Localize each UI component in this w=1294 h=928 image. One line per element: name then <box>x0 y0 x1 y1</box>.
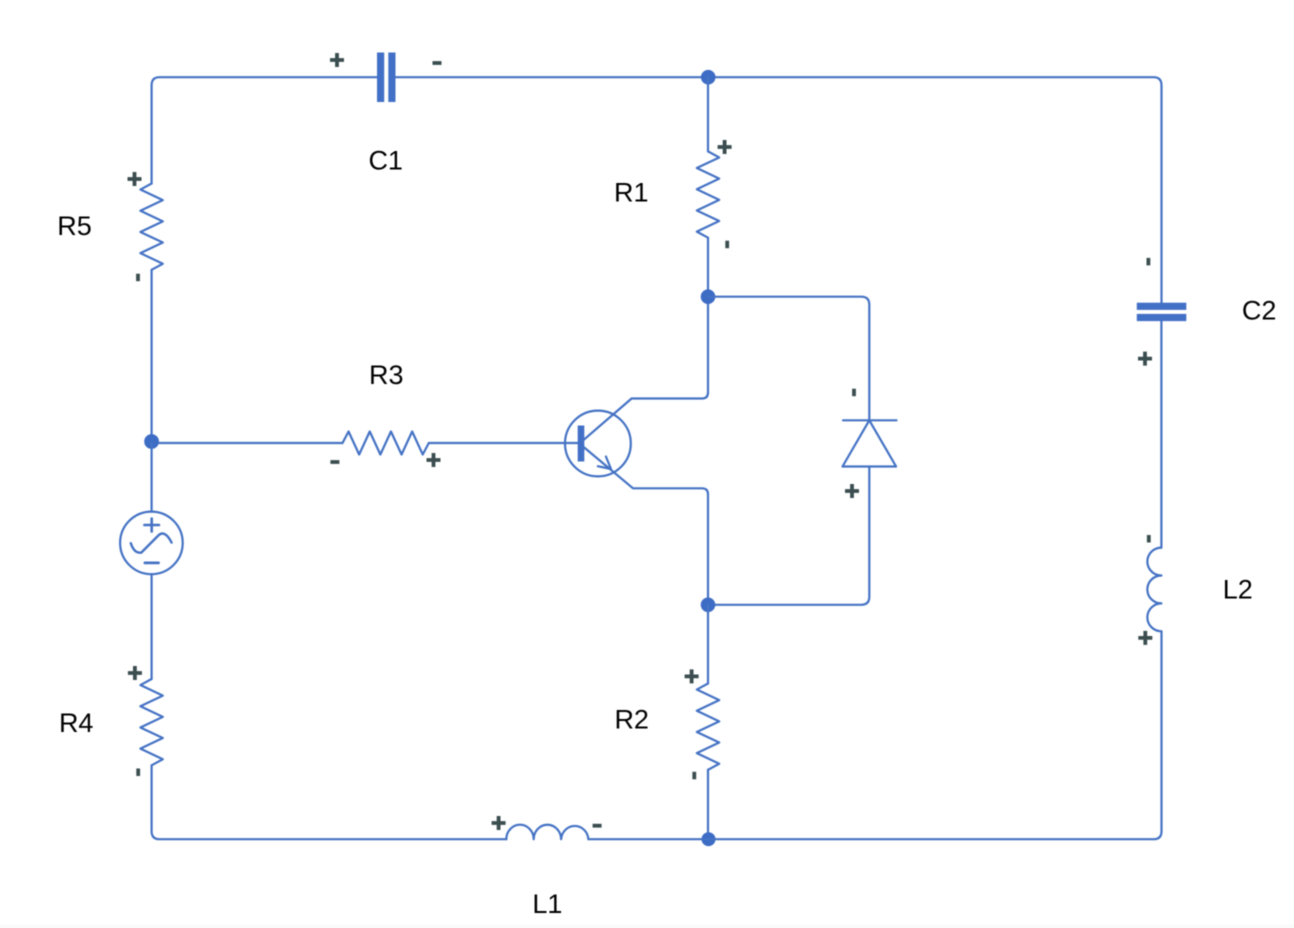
svg-text:R1: R1 <box>614 178 649 208</box>
wire R1 to node C <box>707 238 709 297</box>
source V1 circle <box>120 512 183 575</box>
C2 plus <box>1138 352 1152 366</box>
svg-text:C2: C2 <box>1242 296 1277 326</box>
R3 minus <box>330 460 339 464</box>
C1 minus <box>433 61 442 65</box>
svg-text:R3: R3 <box>369 360 404 390</box>
wire R2 to node E <box>707 770 709 839</box>
wire node B to source <box>151 443 153 512</box>
wire node B to R3 <box>159 442 343 444</box>
diode D1 minus <box>852 389 856 397</box>
svg-text:L1: L1 <box>532 889 562 919</box>
wire bottom-left corner <box>152 765 507 839</box>
R2 minus <box>692 772 696 780</box>
node C (collector junction) <box>701 289 716 304</box>
source V1 minus <box>145 562 159 565</box>
transistor Q1 collector wire <box>583 297 708 441</box>
node E (bottom junction) <box>702 832 716 846</box>
wire node A to R1 <box>707 77 709 151</box>
transistor Q1 emitter wire <box>583 447 708 605</box>
R5 minus <box>136 274 140 282</box>
capacitor C2 <box>1137 303 1187 321</box>
wire R3 to transistor base <box>429 442 578 444</box>
bottom edge strip <box>0 925 1294 928</box>
diode D1 plus <box>845 484 859 498</box>
R4 plus <box>128 666 142 680</box>
transistor Q1 circle <box>565 411 631 477</box>
svg-text:R2: R2 <box>614 705 649 735</box>
capacitor C1 <box>377 53 396 103</box>
node D (emitter junction) <box>701 598 716 613</box>
node A (top junction) <box>701 70 716 85</box>
L1 minus <box>593 824 602 828</box>
R4 minus <box>136 769 140 777</box>
node B (left junction) <box>144 434 159 449</box>
R1 minus <box>725 241 729 249</box>
L2 minus <box>1147 535 1151 543</box>
wire top rail right segment <box>396 77 1162 303</box>
L1 plus <box>492 816 506 830</box>
resistor R3 <box>343 432 429 455</box>
resistor R5 <box>140 184 162 270</box>
L2 plus <box>1138 631 1152 645</box>
transistor Q1 base bar <box>578 426 585 462</box>
resistor R1 <box>697 151 719 237</box>
polarity marks <box>128 53 1153 830</box>
C2 minus <box>1147 258 1151 266</box>
resistor R2 <box>697 684 719 770</box>
wire bottom rail right segment <box>588 831 1161 839</box>
svg-text:L2: L2 <box>1223 574 1253 604</box>
resistor R4 <box>140 679 162 765</box>
diode D1 triangle <box>843 420 897 466</box>
inductor L1 <box>506 825 588 840</box>
wire diode bottom to node D <box>708 467 869 605</box>
source V1 plus <box>144 519 159 532</box>
wire top rail left segment <box>152 77 377 183</box>
wire node D to R2 <box>707 605 709 684</box>
diode D1 cathode bar <box>843 419 897 421</box>
R5 plus <box>128 172 142 186</box>
R2 plus <box>685 669 699 683</box>
svg-text:R5: R5 <box>57 211 92 241</box>
source V1 sine <box>131 534 172 553</box>
wire right rail middle <box>1160 321 1162 547</box>
R3 plus <box>427 453 441 467</box>
wire right rail lower <box>1160 631 1162 831</box>
wire left rail R5 to node B <box>151 270 153 443</box>
wire source to R4 <box>151 574 153 679</box>
inductor L2 <box>1147 548 1161 632</box>
svg-text:R4: R4 <box>59 708 94 738</box>
transistor Q1 emitter arrow <box>598 457 611 470</box>
wire node C to diode top <box>708 297 869 421</box>
svg-text:C1: C1 <box>368 146 403 176</box>
C1 plus <box>330 53 344 67</box>
R1 plus <box>718 140 732 154</box>
